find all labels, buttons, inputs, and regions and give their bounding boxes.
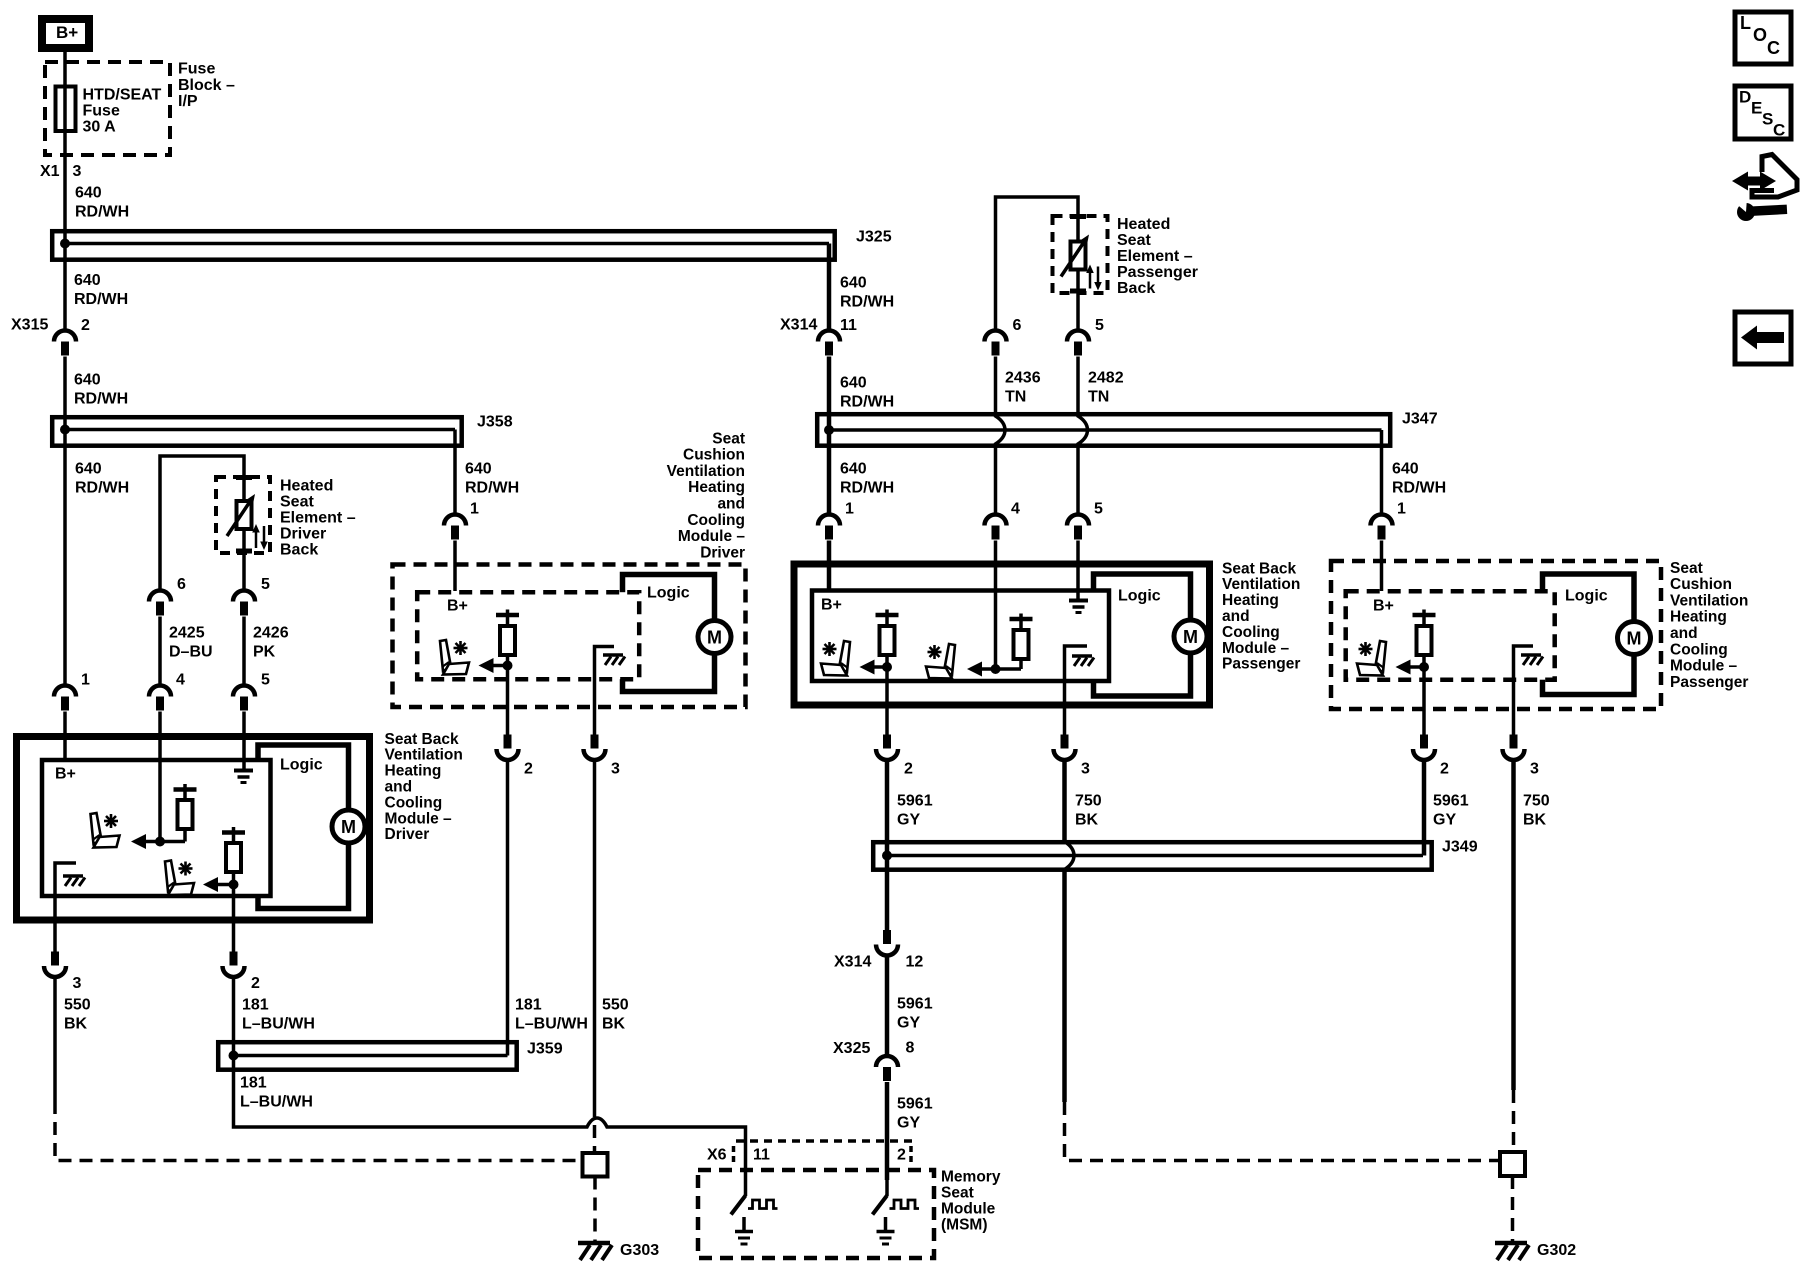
label wire 750 BK passenger back pin3 [1075,793,1102,829]
svg-text:640: 640 [840,275,867,292]
svg-text:3: 3 [611,761,620,778]
svg-text:X315: X315 [11,317,48,334]
wire 2436 TN crossing J347 [996,357,1006,515]
svg-text:181: 181 [242,997,269,1014]
svg-text:GY: GY [897,1115,920,1132]
svg-text:and: and [1670,625,1698,642]
svg-text:Cooling: Cooling [687,512,745,529]
svg-text:Seat: Seat [1117,232,1151,249]
svg-text:Heating: Heating [688,479,745,496]
wire 550 BK driver cushion dashed to G303 [593,761,597,1154]
wire X325-8 to memory seat module pin 2 [885,1082,890,1180]
connector passenger cushion pin 3 [1503,735,1540,778]
wire driver cushion pin2 to J359 [506,761,510,1056]
label wire 5961 GY below X314-12 [897,996,933,1032]
wire 750 BK passenger cushion dashed to G302 [1511,761,1516,1153]
label wire 5961 GY passenger back pin2 [897,793,933,829]
icon wiring tools [1732,155,1797,222]
chassis ground wire passenger back [1065,646,1088,735]
svg-text:B+: B+ [1373,598,1394,615]
chassis ground symbol passenger back [1072,656,1094,666]
svg-text:BK: BK [1523,812,1547,829]
connector driver module pin 1 [54,672,90,711]
connector passenger cushion pin 2 [1413,735,1449,778]
svg-text:M: M [707,628,722,648]
svg-text:2: 2 [897,1147,906,1164]
svg-text:B+: B+ [821,597,842,614]
connector element driver pin 5 [233,576,270,615]
svg-text:2426: 2426 [253,625,289,642]
module memory seat module dashed box [698,1170,934,1258]
wire pin1 B+ entry passenger back [827,541,832,591]
dashed wire junction box to G302 [1511,1176,1515,1242]
wire driver back pin2 to J359 [232,978,236,1041]
wire X314-11 to J347 [827,357,832,413]
wire 550 BK driver back dashed to G303 [55,978,583,1161]
connector X314 pin 11 [780,317,857,356]
svg-text:L–BU/WH: L–BU/WH [515,1016,588,1033]
connector passenger module pin 1 [818,501,854,540]
chassis ground wire driver cushion [595,647,615,735]
svg-text:11: 11 [840,317,857,334]
svg-text:M: M [1183,627,1198,647]
svg-text:Driver: Driver [280,526,326,543]
label module passenger cushion [1670,560,1748,691]
inner box passenger back module [812,591,1109,682]
label wire 181 L-BU/WH driver back pin2 [242,997,315,1033]
module seat cushion driver dashed box [393,565,746,708]
label fuse [83,87,162,136]
svg-text:1: 1 [1397,501,1406,518]
svg-text:X314: X314 [780,317,817,334]
wire 750 BK crossing J349 dashed to G302 [1065,761,1501,1161]
ground signal driver back module [234,771,253,783]
arrow to seat 1 driver [131,834,185,849]
svg-text:8: 8 [906,1040,915,1057]
svg-text:M: M [341,817,356,837]
svg-text:D: D [1739,87,1751,106]
motor M passenger cushion [1618,622,1651,655]
wire 2426 PK [242,617,246,686]
label wire 640 RD/WH left below J325 [74,272,128,308]
svg-text:Block –: Block – [178,77,235,94]
junction dot driver cushion [503,661,513,671]
probe resistor 1 passenger back [876,610,899,668]
svg-text:Ventilation: Ventilation [667,463,745,480]
svg-text:Ventilation: Ventilation [1222,576,1300,593]
wire 2425 D-BU [158,617,162,686]
svg-text:6: 6 [177,576,186,593]
connector X1 pin 3 labels [40,163,82,180]
seat icon passenger back 1 [821,641,850,676]
wire J347 right exit [1380,430,1384,514]
svg-text:S: S [1762,109,1773,128]
svg-text:5: 5 [1094,501,1103,518]
svg-text:J347: J347 [1402,411,1438,428]
wire pin5 to signal ground driver back [242,712,246,770]
svg-text:181: 181 [515,997,542,1014]
connector driver cushion pin 3 [584,735,621,778]
chassis ground symbol driver back [63,876,85,886]
label memory seat module [941,1168,1001,1233]
connector driver cushion pin 1 [444,501,479,540]
svg-text:RD/WH: RD/WH [840,480,894,497]
svg-text:BK: BK [602,1016,626,1033]
connector passenger cushion pin 1 [1371,501,1407,540]
probe resistor 2 driver back [222,827,245,885]
svg-text:5961: 5961 [897,793,933,810]
svg-text:TN: TN [1088,389,1109,406]
svg-text:181: 181 [240,1075,267,1092]
wire passenger back pin2 to J349 [885,761,890,841]
connector driver back pin 2 [223,952,261,993]
wire connector1 to passenger cushion module [1380,541,1384,592]
svg-text:Ventilation: Ventilation [385,747,463,764]
svg-text:Logic: Logic [1118,588,1161,605]
label wire 640 RD/WH right below J325 [840,275,894,311]
svg-text:640: 640 [840,375,867,392]
splice J325 [52,229,891,260]
svg-text:550: 550 [64,997,91,1014]
svg-text:GY: GY [1433,812,1456,829]
svg-text:and: and [717,496,745,513]
label Logic driver back [280,757,323,774]
connector element driver pin 6 [149,576,186,615]
svg-text:2482: 2482 [1088,370,1124,387]
wire J347 left through-drop [827,412,832,514]
svg-text:Logic: Logic [1565,588,1608,605]
seat icon heated seat back driver 1 [91,813,120,848]
svg-text:640: 640 [75,461,102,478]
svg-text:Module –: Module – [1222,640,1290,657]
svg-text:11: 11 [753,1147,770,1164]
svg-text:Seat: Seat [1670,560,1703,577]
arrow to seat passenger cushion [1396,660,1425,675]
label module driver cushion [667,430,746,561]
label Logic passenger cushion [1565,588,1608,605]
svg-text:4: 4 [1011,501,1020,518]
svg-text:3: 3 [1081,761,1090,778]
svg-text:Fuse: Fuse [83,103,120,120]
wire J358 right exit to connector 1 [453,430,457,515]
icon DESC box [1735,86,1791,139]
label B+ passenger cushion [1373,598,1394,615]
svg-text:GY: GY [897,812,920,829]
connector driver module pin 4 [149,672,185,711]
motor M driver back [332,810,365,843]
svg-text:640: 640 [74,272,101,289]
svg-text:Module –: Module – [385,810,453,827]
label wire 640 RD/WH left above J358 [74,372,128,408]
logic box driver cushion [623,575,715,692]
svg-text:Seat Back: Seat Back [1222,560,1296,577]
label wire 2425 D-BU [169,625,213,661]
wire 181 L-BU/WH to memory seat module pin 11 [234,1044,746,1180]
label wire 640 RD/WH (fuse output) [75,185,129,221]
fuse HTD/SEAT 30A [56,87,76,132]
connector X314 pin 12 [834,930,923,971]
svg-text:C: C [1767,38,1780,58]
chassis ground symbol driver cushion [603,655,625,665]
wire X314-12 to X325-8 [885,957,890,1056]
probe resistor 2 passenger back [1010,614,1033,670]
wire J325 right drop to X314-11 [827,244,832,331]
wire J358 through-drop to driver module pin 1 [63,417,67,685]
svg-text:5: 5 [261,672,270,689]
wire element loop driver [160,456,244,590]
wire pin2 output driver cushion [506,666,510,735]
svg-text:Seat: Seat [941,1184,974,1201]
svg-text:B+: B+ [447,598,468,615]
svg-text:3: 3 [73,975,82,992]
connector passenger back pin 2 [876,735,913,778]
label wire 550 BK driver cushion pin3 [602,997,629,1033]
svg-text:Passenger: Passenger [1117,264,1198,281]
ground G303 [578,1242,659,1260]
svg-text:3: 3 [1530,761,1539,778]
svg-text:Element –: Element – [280,510,356,527]
connector X315 pin 2 [11,317,90,356]
module seat back ventilation heating and cooling driver box [17,737,370,921]
svg-text:Cushion: Cushion [1670,576,1732,593]
svg-text:6: 6 [1013,317,1022,334]
svg-text:2: 2 [1440,761,1449,778]
svg-text:J325: J325 [856,229,892,246]
svg-text:X325: X325 [833,1040,870,1057]
label wire 181 L-BU/WH below J359 [240,1075,313,1111]
svg-text:M: M [1627,629,1642,649]
svg-text:550: 550 [602,997,629,1014]
junction dot pin4 line driver [155,837,165,847]
svg-text:Back: Back [280,542,318,559]
wire pin4 into driver back module [158,712,162,842]
splice J349 [873,839,1477,870]
svg-text:Heating: Heating [385,763,442,780]
label module driver back [385,731,463,843]
label wire 640 RD/WH below J347 right [1392,461,1446,497]
svg-text:RD/WH: RD/WH [74,291,128,308]
label heated seat element driver back [280,478,356,559]
svg-text:4: 4 [176,672,185,689]
svg-text:BK: BK [1075,812,1099,829]
connector driver back pin 3 [44,952,82,993]
svg-text:750: 750 [1075,793,1102,810]
wire 2482 TN crossing J347 [1078,357,1088,515]
heated seat element driver back dashed box [216,475,270,554]
logic box passenger back module [1094,574,1191,696]
svg-text:and: and [385,779,413,796]
power symbol B+ battery terminal [42,19,89,48]
label module passenger back [1222,560,1300,672]
svg-text:1: 1 [81,672,90,689]
dashed wire junction box to G303 [593,1177,597,1243]
label wire 181 L-BU/WH driver cushion pin2 [515,997,588,1033]
svg-text:B+: B+ [55,766,76,783]
junction box ground G303 [583,1153,608,1177]
svg-text:RD/WH: RD/WH [74,391,128,408]
svg-text:J359: J359 [527,1041,563,1058]
wire J349 through-drop to X314-12 [885,840,890,930]
label wire 750 BK passenger cushion pin3 [1523,793,1550,829]
motor M passenger back [1174,620,1207,653]
connector driver cushion pin 2 [497,735,534,778]
svg-text:Module –: Module – [678,528,746,545]
junction box ground G302 [1500,1152,1525,1176]
thermistor heated seat element driver back [227,494,268,550]
connector X6 band [707,1141,913,1164]
label wire 640 RD/WH below J358 left [75,461,129,497]
svg-text:C: C [1773,120,1785,139]
fuse block I/P dashed box [45,62,170,155]
svg-text:X1: X1 [40,163,60,180]
svg-text:2: 2 [904,761,913,778]
junction dot passenger cushion [1419,662,1429,672]
splice J358 [52,414,512,446]
svg-text:G303: G303 [620,1242,659,1259]
connector passenger back pin 3 [1054,735,1091,778]
heated seat element passenger back dashed box [1053,214,1108,294]
svg-text:L: L [1740,13,1751,33]
svg-text:2425: 2425 [169,625,205,642]
label B+ passenger back [821,597,842,614]
svg-text:Cooling: Cooling [1222,624,1280,641]
svg-text:L–BU/WH: L–BU/WH [242,1016,315,1033]
wire pin1 B+ entry driver back [63,712,67,761]
svg-text:Ventilation: Ventilation [1670,592,1748,609]
label B+ driver cushion [447,598,468,615]
label Logic passenger back [1118,588,1161,605]
svg-text:RD/WH: RD/WH [75,480,129,497]
label B+ driver back [55,766,76,783]
svg-text:X314: X314 [834,954,871,971]
svg-text:E: E [1751,98,1762,117]
svg-text:5961: 5961 [897,1096,933,1113]
svg-text:HTD/SEAT: HTD/SEAT [83,87,162,104]
svg-text:30 A: 30 A [83,119,117,136]
svg-text:X6: X6 [707,1147,727,1164]
connector element passenger pin 5 [1067,317,1104,355]
arrow to seat 2 driver [203,877,234,892]
ground G302 [1495,1242,1576,1260]
wire B+ feed through fuse to J325 [63,52,67,229]
svg-text:Cooling: Cooling [385,794,443,811]
svg-text:750: 750 [1523,793,1550,810]
wire through element passenger [1076,216,1080,330]
chassis ground wire driver back [55,863,76,952]
label wire 2426 PK [253,625,289,661]
svg-text:Logic: Logic [280,757,323,774]
svg-text:RD/WH: RD/WH [840,394,894,411]
svg-text:Seat: Seat [712,430,745,447]
svg-text:640: 640 [465,461,492,478]
label wire 640 RD/WH below J347 left [840,461,894,497]
chassis ground wire passenger cushion [1514,646,1534,735]
svg-text:2: 2 [81,317,90,334]
chassis ground symbol passenger cushion [1521,655,1543,665]
wire pin2 output passenger cushion [1422,667,1426,735]
seat icon passenger cushion [1357,641,1386,676]
probe resistor 1 driver back [174,784,197,842]
ground signal passenger back module [1069,601,1088,613]
svg-text:B+: B+ [56,23,78,42]
arrow to seat 1 passenger [860,660,888,675]
svg-text:L–BU/WH: L–BU/WH [240,1094,313,1111]
svg-text:640: 640 [840,461,867,478]
splice J359 [218,1041,562,1070]
label heated seat element passenger back [1117,216,1198,297]
label wire 2436 TN [1005,370,1041,406]
junction dot resistor1 passenger [882,662,892,672]
svg-text:(MSM): (MSM) [941,1216,988,1233]
motor M driver cushion [698,621,731,654]
seat icon passenger back 2 [926,644,955,679]
svg-text:12: 12 [906,954,924,971]
icon back-arrow box [1735,312,1791,364]
seat icon heated seat back driver 2 [165,861,194,896]
svg-text:Driver: Driver [385,826,430,843]
svg-text:640: 640 [74,372,101,389]
svg-text:Cushion: Cushion [683,447,745,464]
label wire 5961 GY passenger cushion pin2 [1433,793,1469,829]
wire pin4 into passenger back module [994,541,998,670]
wire passenger cushion pin2 to J349 [1422,761,1427,856]
logic box driver back module [258,745,349,909]
svg-text:Seat Back: Seat Back [385,731,459,748]
label wire 640 RD/WH right above J347 [840,375,894,411]
wire connector1 to driver cushion module [453,541,457,592]
svg-text:O: O [1753,25,1767,45]
module seat back ventilation heating and cooling passenger box [794,564,1210,705]
svg-text:PK: PK [253,644,276,661]
svg-text:J349: J349 [1442,839,1478,856]
connector element passenger pin 6 [985,317,1022,355]
wire through element [242,477,246,590]
svg-text:Driver: Driver [700,544,745,561]
label fuse block [178,60,235,110]
label wire 550 BK driver back pin3 [64,997,91,1033]
svg-text:RD/WH: RD/WH [840,294,894,311]
svg-text:J358: J358 [477,414,513,431]
label Logic driver cushion [647,585,690,602]
svg-text:TN: TN [1005,389,1026,406]
svg-text:Module –: Module – [1670,658,1738,675]
connector X325 pin 8 [833,1040,915,1081]
wire element loop passenger [996,197,1079,330]
connector passenger module pin 4 [985,501,1021,540]
svg-text:2436: 2436 [1005,370,1041,387]
wire pin5 to signal ground passenger back [1076,541,1080,600]
wire X315 to J358 [63,357,67,416]
inner dashed box driver cushion [417,592,639,679]
svg-text:2: 2 [524,761,533,778]
svg-text:and: and [1222,608,1250,625]
svg-text:Heating: Heating [1222,592,1279,609]
svg-text:5961: 5961 [897,996,933,1013]
svg-text:RD/WH: RD/WH [465,480,519,497]
arrow to seat driver cushion [479,658,508,673]
svg-text:Heating: Heating [1670,609,1727,626]
wire pin2 output driver back [232,885,236,952]
svg-text:BK: BK [64,1016,88,1033]
svg-text:Memory: Memory [941,1168,1001,1185]
svg-text:640: 640 [75,185,102,202]
svg-text:Seat: Seat [280,494,314,511]
svg-text:I/P: I/P [178,93,198,110]
svg-text:GY: GY [897,1015,920,1032]
svg-text:3: 3 [73,163,82,180]
thermistor heated seat element passenger back [1061,235,1102,291]
wire J325 left drop to X315 [63,229,67,330]
